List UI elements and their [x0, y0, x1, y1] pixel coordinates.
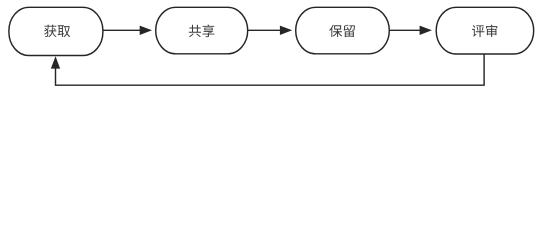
- arrow box1->box2: [103, 29, 141, 31]
- arrow box2->box3: [248, 29, 281, 31]
- label 共享: [189, 25, 215, 38]
- node box3 保留: [296, 7, 390, 54]
- node box4 评审: [436, 7, 534, 54]
- arrowhead into box1 bottom: [51, 56, 60, 68]
- label 保留: [329, 25, 355, 37]
- node box2 共享: [156, 7, 248, 54]
- label 获取: [44, 25, 70, 37]
- wire feedback loop box4->box1: [56, 54, 485, 85]
- arrow box3->box4: [389, 29, 420, 31]
- label 评审: [472, 25, 497, 38]
- node box1 获取: [9, 7, 103, 55]
